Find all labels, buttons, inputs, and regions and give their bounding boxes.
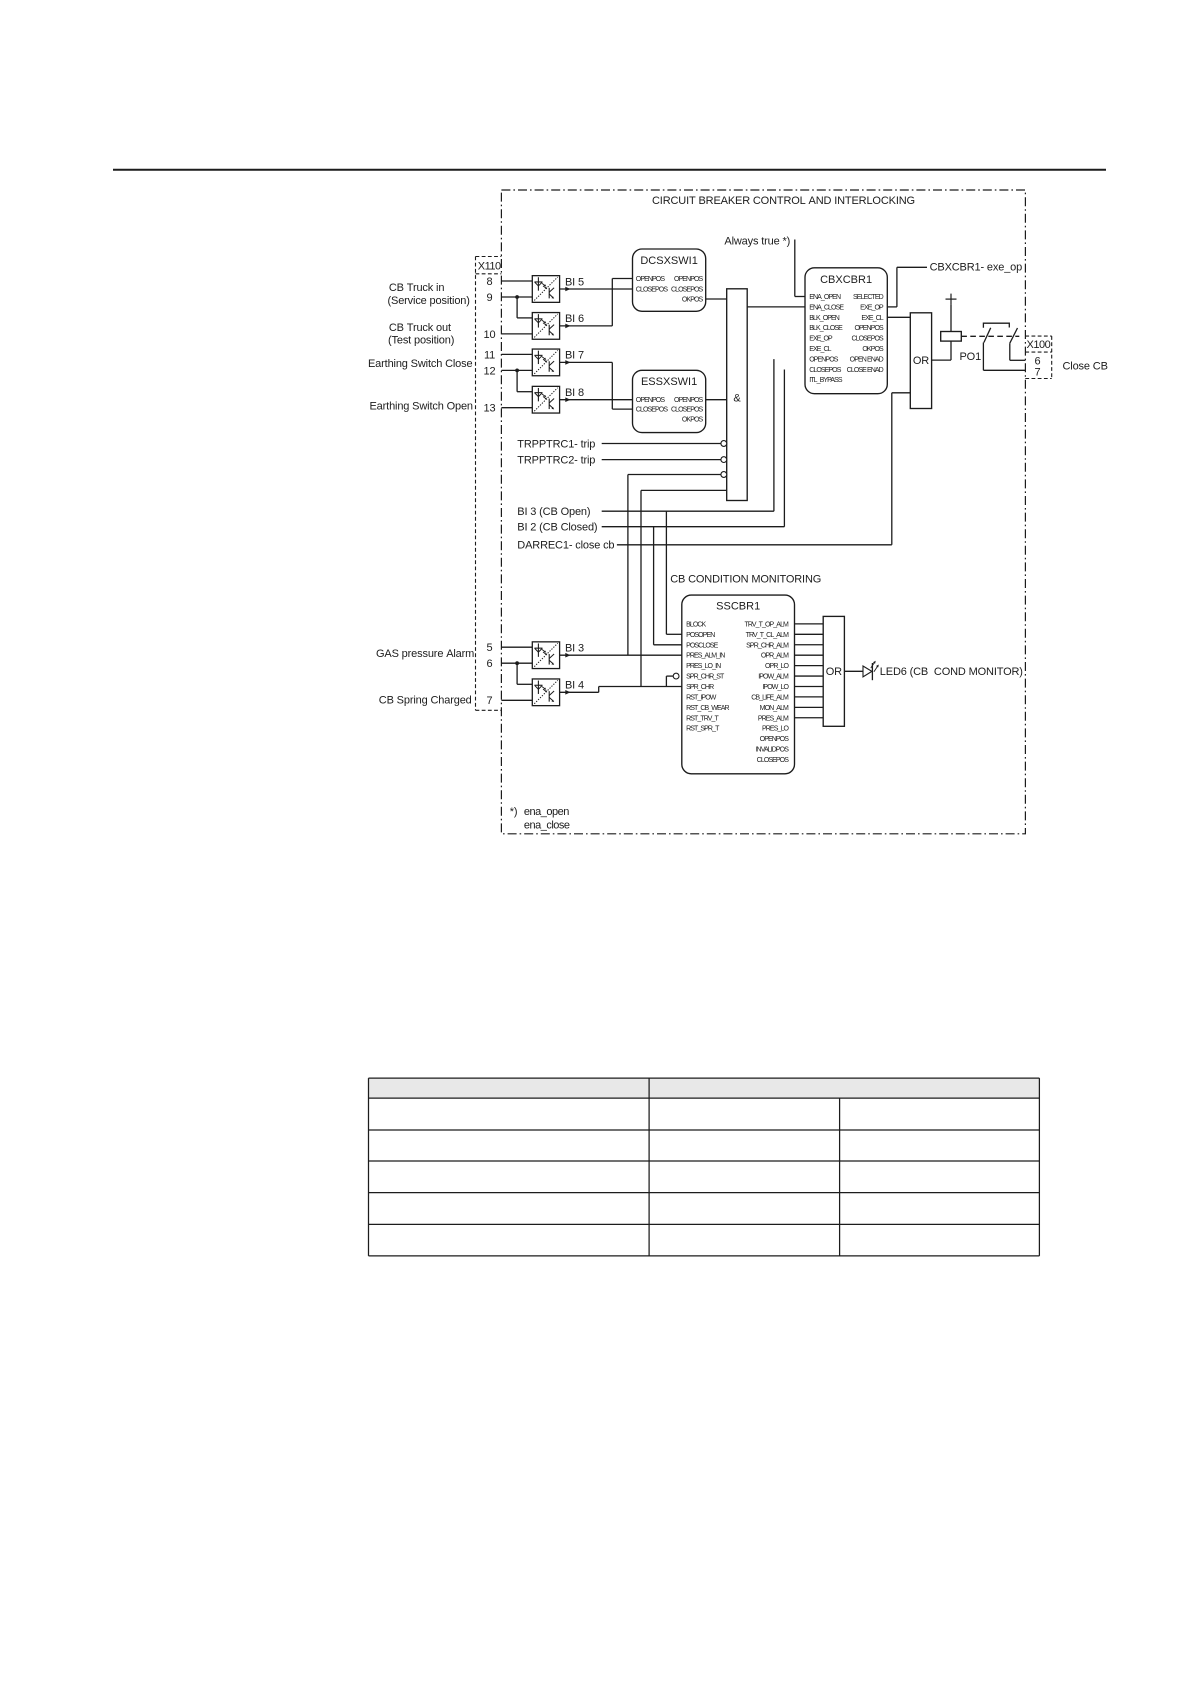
terminal X110-5	[487, 642, 493, 654]
svg-text:CB Truck in: CB Truck in	[389, 282, 444, 294]
opto-isolator binary input BI4	[532, 679, 559, 706]
function block ESSXSWI1	[633, 370, 706, 432]
opto-isolator binary input BI8	[532, 386, 559, 413]
svg-text:CBXCBR1: CBXCBR1	[820, 274, 872, 286]
input label GAS pressure Alarm	[376, 648, 474, 660]
svg-text:CLOSEPOS: CLOSEPOS	[809, 367, 842, 374]
wire OR to LED	[844, 670, 863, 672]
label BI 5	[565, 276, 584, 288]
svg-text:OPENPOS: OPENPOS	[674, 276, 704, 283]
terminal X110-7	[487, 695, 493, 707]
wire always true to ENA_OPEN	[795, 240, 805, 297]
wire terminal 6 to BI3 and BI4	[501, 661, 532, 684]
mechanical link dashed	[961, 335, 1019, 337]
wire BI4 output to SSCBR1 SPR_CHR	[560, 687, 682, 695]
wire branch to inverted SPR_CHR_ST	[666, 673, 679, 686]
svg-text:SPR_CHR_ALM: SPR_CHR_ALM	[746, 642, 789, 649]
terminal X110-12	[484, 365, 496, 377]
wire BI3 CB open net	[602, 359, 774, 634]
svg-text:CLOSE ENAD: CLOSE ENAD	[847, 367, 884, 374]
svg-text:IPOW_ALM: IPOW_ALM	[758, 674, 789, 681]
svg-text:Earthing Switch Open: Earthing Switch Open	[370, 401, 473, 413]
svg-text:RST_CB_WEAR: RST_CB_WEAR	[686, 705, 729, 712]
label BI 4	[565, 680, 584, 692]
svg-text:ITL_BYPASS: ITL_BYPASS	[809, 377, 843, 384]
empty data table	[369, 1078, 1040, 1256]
label LED6	[880, 666, 1023, 678]
input label CB Truck in	[389, 282, 444, 294]
svg-text:(Service position): (Service position)	[388, 295, 470, 307]
svg-text:8: 8	[487, 276, 493, 288]
input label CB Truck out	[389, 322, 451, 334]
svg-text:BLK_OPEN: BLK_OPEN	[809, 315, 840, 322]
svg-text:PRES_LO: PRES_LO	[762, 726, 789, 733]
terminal X110-6	[487, 658, 493, 670]
AND gate	[721, 289, 747, 501]
svg-text:BLK_CLOSE: BLK_CLOSE	[809, 325, 843, 332]
wire terminal 5 to BI3	[501, 646, 532, 648]
wire DARREC1 close to OR	[617, 393, 910, 545]
wire TRPPTRC1 to AND inverted input	[602, 443, 721, 445]
svg-text:BI 2 (CB Closed): BI 2 (CB Closed)	[517, 522, 597, 534]
svg-text:OPR_LO: OPR_LO	[765, 663, 789, 670]
svg-text:ena_open: ena_open	[524, 806, 569, 818]
label BI 6	[565, 313, 584, 325]
svg-text:OR: OR	[826, 666, 842, 678]
wire gas pressure alarm to AND inverted input	[628, 475, 721, 656]
OR gate (close command)	[910, 313, 931, 409]
label Close CB	[1063, 360, 1108, 372]
section title CB CONDITION MONITORING	[670, 574, 821, 586]
svg-text:EXE_OP: EXE_OP	[809, 336, 833, 343]
svg-text:X110: X110	[478, 260, 501, 272]
label PO1	[960, 351, 982, 363]
input label (Service position)	[388, 295, 470, 307]
wire BI3 output to SSCBR1 PRES_ALM_IN	[560, 653, 682, 658]
svg-text:RST_IPOW: RST_IPOW	[686, 694, 717, 701]
svg-text:SPR_CHR_ST: SPR_CHR_ST	[686, 674, 725, 681]
svg-text:POSCLOSE: POSCLOSE	[686, 642, 719, 649]
label BI 3 (CB Open)	[517, 506, 590, 518]
svg-text:DCSXSWI1: DCSXSWI1	[640, 255, 697, 267]
function block DCSXSWI1	[633, 249, 706, 311]
svg-text:5: 5	[487, 642, 493, 654]
svg-text:ena_close: ena_close	[524, 819, 570, 831]
svg-text:GAS pressure Alarm: GAS pressure Alarm	[376, 648, 474, 660]
wire BI6 output to DCSXSWI1 OPENPOS	[560, 279, 633, 329]
label CBXCBR1- exe_op	[930, 261, 1023, 273]
svg-text:BI 7: BI 7	[565, 350, 584, 362]
terminal X110-8	[487, 276, 493, 288]
svg-text:SPR_CHR: SPR_CHR	[686, 684, 714, 691]
wire ESSXSWI1 OPENPOS to AND	[706, 399, 727, 401]
svg-text:RST_SPR_T: RST_SPR_T	[686, 726, 720, 733]
label TRPPTRC2- trip	[517, 455, 595, 467]
wire terminal 11 to BI7	[501, 353, 532, 355]
wire DCSXSWI1 OKPOS to AND	[706, 298, 727, 300]
svg-text:9: 9	[487, 292, 493, 304]
svg-text:7: 7	[1035, 366, 1041, 378]
svg-text:OKPOS: OKPOS	[682, 416, 704, 423]
label BI 2 (CB Closed)	[517, 522, 597, 534]
wire CB spring charged to AND input	[641, 490, 727, 686]
svg-text:12: 12	[484, 365, 496, 377]
svg-text:CIRCUIT BREAKER CONTROL AND IN: CIRCUIT BREAKER CONTROL AND INTERLOCKING	[652, 195, 915, 207]
svg-text:EXE_CL: EXE_CL	[809, 346, 831, 353]
svg-text:TRV_T_CL_ALM: TRV_T_CL_ALM	[746, 632, 789, 639]
svg-text:EXE_CL: EXE_CL	[861, 315, 883, 322]
frame: CIRCUIT BREAKER CONTROL AND INTERLOCKING	[501, 190, 1025, 834]
wire terminal 10 to BI6	[501, 333, 532, 335]
svg-text:7: 7	[487, 695, 493, 707]
svg-text:OPENPOS: OPENPOS	[760, 736, 790, 743]
wire EXE_CL to OR	[887, 316, 910, 318]
svg-text:INVALIDPOS: INVALIDPOS	[756, 747, 790, 754]
input label Earthing Switch Open	[370, 401, 473, 413]
svg-text:OR: OR	[913, 355, 929, 367]
wire terminal 9 to BI5 and BI6	[501, 295, 532, 318]
svg-text:MON_ALM: MON_ALM	[760, 705, 789, 712]
svg-text:BI 5: BI 5	[565, 276, 584, 288]
input label (Test position)	[388, 335, 454, 347]
svg-text:BI 3 (CB Open): BI 3 (CB Open)	[517, 506, 590, 518]
svg-text:CB Truck out: CB Truck out	[389, 322, 451, 334]
plus supply	[946, 294, 957, 305]
output contact pair	[983, 323, 1025, 370]
opto-isolator binary input BI3	[532, 642, 559, 669]
wire BI8 output to ESSXSWI1 OPENPOS	[560, 397, 633, 402]
relay coil PO1	[941, 332, 962, 342]
svg-text:OKPOS: OKPOS	[682, 297, 704, 304]
svg-text:Earthing Switch Close: Earthing Switch Close	[368, 358, 472, 370]
svg-text:Always true *): Always true *)	[724, 236, 790, 248]
opto-isolator binary input BI6	[532, 313, 559, 340]
input label Earthing Switch Close	[368, 358, 472, 370]
svg-text:CLOSEPOS: CLOSEPOS	[671, 407, 704, 414]
svg-text:OPENPOS: OPENPOS	[854, 325, 884, 332]
svg-text:CLOSEPOS: CLOSEPOS	[636, 287, 669, 294]
footnote ena_open ena_close	[510, 806, 570, 831]
svg-text:DARREC1- close cb: DARREC1- close cb	[517, 540, 614, 552]
svg-text:PRES_ALM: PRES_ALM	[758, 715, 789, 722]
svg-text:CB CONDITION MONITORING: CB CONDITION MONITORING	[670, 574, 821, 586]
svg-text:6: 6	[487, 658, 493, 670]
function block CBXCBR1	[805, 268, 887, 394]
svg-text:ENA_OPEN: ENA_OPEN	[809, 294, 841, 301]
svg-text:CLOSEPOS: CLOSEPOS	[757, 757, 790, 764]
svg-text:TRPPTRC2- trip: TRPPTRC2- trip	[517, 455, 595, 467]
wires SSCBR1 alarm outputs to OR	[795, 624, 824, 718]
svg-text:CB Spring Charged: CB Spring Charged	[379, 695, 472, 707]
svg-text:*): *)	[510, 806, 518, 818]
wire OR output to PO1 coil	[932, 341, 951, 360]
svg-text:OPR_ALM: OPR_ALM	[761, 653, 789, 660]
wire TRPPTRC2 to AND inverted input	[602, 459, 721, 461]
svg-text:EXE_OP: EXE_OP	[860, 304, 884, 311]
label BI 3	[565, 643, 584, 655]
input label CB Spring Charged	[379, 695, 472, 707]
svg-text:IPOW_LO: IPOW_LO	[762, 684, 789, 691]
label TRPPTRC1- trip	[517, 438, 595, 450]
svg-text:OPEN ENAD: OPEN ENAD	[850, 356, 884, 363]
svg-text:ESSXSWI1: ESSXSWI1	[641, 376, 697, 388]
svg-text:BI 8: BI 8	[565, 387, 584, 399]
svg-text:CB_LIFE_ALM: CB_LIFE_ALM	[751, 694, 789, 701]
svg-text:ENA_CLOSE: ENA_CLOSE	[809, 304, 844, 311]
svg-text:13: 13	[484, 403, 496, 415]
wire EXE_OP to label	[887, 267, 927, 307]
svg-text:LED6 (CB COND MONITOR): LED6 (CB COND MONITOR)	[880, 666, 1023, 678]
wire AND output to CBXCBR1 ENA_CLOSE	[747, 306, 805, 308]
wire BI7 output to ESSXSWI1 CLOSEPOS	[560, 360, 633, 409]
svg-text:BI 4: BI 4	[565, 680, 584, 692]
svg-text:11: 11	[484, 349, 495, 361]
svg-text:SELECTED: SELECTED	[853, 294, 884, 301]
terminal block X110	[476, 257, 502, 711]
svg-text:OPENPOS: OPENPOS	[674, 397, 704, 404]
svg-text:PRES_ALM_IN: PRES_ALM_IN	[686, 653, 725, 660]
svg-text:TRPPTRC1- trip: TRPPTRC1- trip	[517, 438, 595, 450]
svg-text:OKPOS: OKPOS	[862, 346, 884, 353]
svg-text:OPENPOS: OPENPOS	[636, 397, 666, 404]
svg-text:&: &	[733, 393, 741, 405]
label BI 7	[565, 350, 584, 362]
wire BI2 CB closed net	[602, 370, 785, 645]
svg-text:10: 10	[484, 329, 496, 341]
label Always true *)	[724, 236, 790, 248]
wire terminal 13 to BI8	[501, 407, 532, 409]
svg-text:POSOPEN: POSOPEN	[686, 632, 715, 639]
svg-text:BI 6: BI 6	[565, 313, 584, 325]
svg-text:BI 3: BI 3	[565, 643, 584, 655]
opto-isolator binary input BI7	[532, 349, 559, 376]
wire plus to coil	[950, 305, 952, 332]
svg-text:CLOSEPOS: CLOSEPOS	[671, 287, 704, 294]
svg-text:RST_TRV_T: RST_TRV_T	[686, 715, 719, 722]
svg-text:PO1: PO1	[960, 351, 982, 363]
svg-text:X100: X100	[1027, 339, 1051, 351]
svg-text:CLOSEPOS: CLOSEPOS	[636, 407, 669, 414]
svg-text:Close CB: Close CB	[1063, 360, 1108, 372]
terminal X110-11	[484, 349, 495, 361]
terminal X110-13	[484, 403, 496, 415]
terminal X110-10	[484, 329, 496, 341]
svg-text:OPENPOS: OPENPOS	[636, 276, 666, 283]
terminal block X100	[1025, 336, 1051, 378]
opto-isolator binary input BI5	[532, 276, 559, 303]
svg-text:SSCBR1: SSCBR1	[716, 601, 760, 613]
svg-text:(Test position): (Test position)	[388, 335, 454, 347]
svg-text:PRES_LO_IN: PRES_LO_IN	[686, 663, 721, 670]
function block SSCBR1	[682, 595, 795, 774]
svg-text:BLOCK: BLOCK	[686, 621, 706, 628]
label DARREC1- close cb	[517, 540, 614, 552]
frame title	[652, 195, 915, 207]
OR gate (condition monitor)	[823, 616, 844, 726]
svg-text:OPENPOS: OPENPOS	[809, 356, 839, 363]
wire BI5 output to DCSXSWI1 CLOSEPOS	[560, 287, 633, 292]
svg-text:TRV_T_OP_ALM: TRV_T_OP_ALM	[744, 621, 789, 628]
wire terminal 8 to BI5	[501, 280, 532, 282]
top rule	[113, 169, 1106, 171]
wire terminal 7 to BI4	[501, 699, 532, 701]
wire terminal 12 to BI7 and BI8	[501, 369, 532, 392]
svg-text:CBXCBR1- exe_op: CBXCBR1- exe_op	[930, 261, 1023, 273]
terminal X110-9	[487, 292, 493, 304]
LED indicator symbol	[863, 661, 879, 681]
svg-text:CLOSEPOS: CLOSEPOS	[851, 336, 884, 343]
label BI 8	[565, 387, 584, 399]
